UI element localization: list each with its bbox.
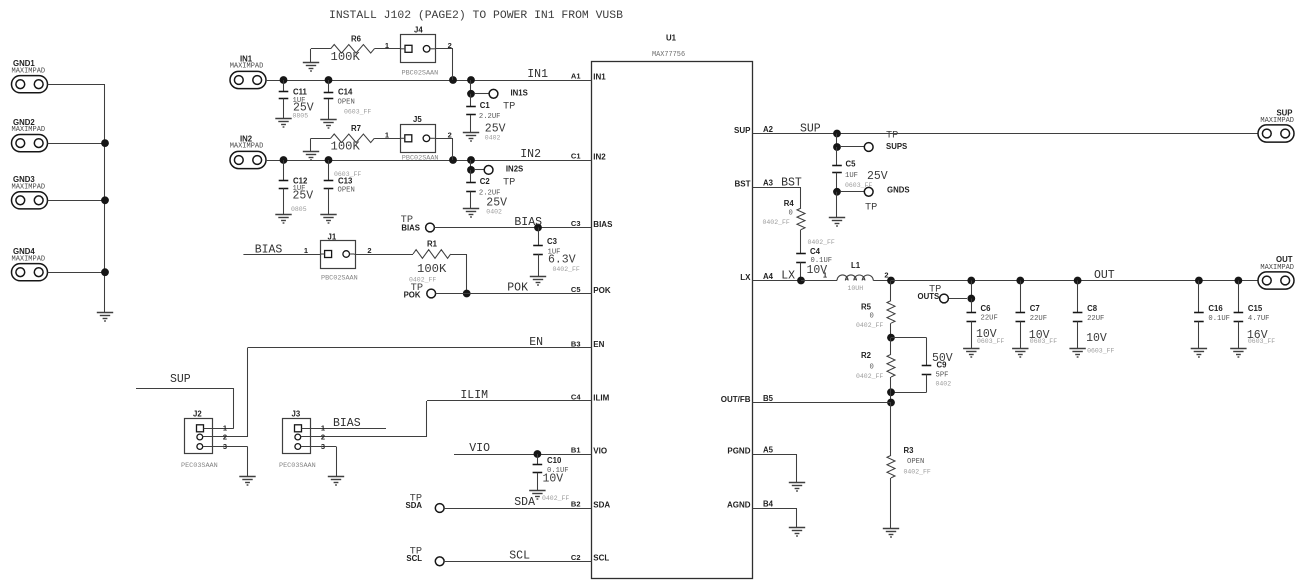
svg-text:C10: C10 [547,456,562,465]
svg-text:22UF: 22UF [1030,315,1047,323]
svg-text:C9: C9 [937,361,948,370]
svg-text:IN1: IN1 [527,68,548,81]
svg-text:B2: B2 [571,500,581,509]
svg-text:0402_FF: 0402_FF [904,469,931,476]
svg-text:25V: 25V [293,190,314,203]
svg-text:22UF: 22UF [1087,315,1104,323]
svg-text:1: 1 [823,271,827,280]
svg-text:C6: C6 [981,304,992,313]
svg-text:BST: BST [735,180,751,189]
svg-text:A3: A3 [763,179,774,188]
svg-text:1: 1 [304,246,308,255]
svg-text:0: 0 [870,313,874,321]
svg-text:GNDS: GNDS [887,186,910,195]
svg-text:LX: LX [740,273,751,282]
svg-text:IN1S: IN1S [511,89,528,98]
svg-text:MAXIMPAD: MAXIMPAD [12,67,46,75]
svg-text:POK: POK [404,290,421,299]
svg-text:R3: R3 [904,446,915,455]
svg-text:C3: C3 [571,219,581,228]
svg-text:SCL: SCL [406,554,422,563]
svg-text:OUTS: OUTS [918,292,940,301]
svg-text:10UH: 10UH [848,285,864,292]
svg-text:C5: C5 [571,285,581,294]
svg-text:MAXIMPAD: MAXIMPAD [1260,264,1294,272]
svg-text:POK: POK [593,286,611,295]
svg-text:SUP: SUP [800,122,821,135]
svg-text:0402_FF: 0402_FF [553,266,580,273]
svg-text:C4: C4 [810,247,821,256]
svg-text:C5: C5 [846,160,857,169]
svg-text:0402: 0402 [936,381,952,388]
svg-text:C14: C14 [338,88,353,97]
svg-text:TP: TP [865,202,877,214]
svg-text:U1: U1 [666,34,677,43]
svg-text:EN: EN [529,336,543,349]
svg-text:C16: C16 [1208,304,1223,313]
svg-text:MAX77756: MAX77756 [652,51,685,59]
svg-text:PEC03SAAN: PEC03SAAN [181,462,218,470]
svg-text:0402_FF: 0402_FF [763,219,790,226]
svg-text:0402_FF: 0402_FF [542,495,569,502]
svg-text:10V: 10V [543,473,564,486]
svg-text:A1: A1 [571,72,581,81]
svg-text:MAXIMPAD: MAXIMPAD [12,183,46,191]
svg-text:1: 1 [385,41,389,50]
svg-text:R6: R6 [351,35,362,44]
svg-text:A5: A5 [763,446,774,455]
svg-text:2: 2 [223,432,227,441]
svg-text:0603_FF: 0603_FF [344,109,371,116]
svg-text:C2: C2 [480,177,491,186]
svg-text:BIAS: BIAS [333,417,361,430]
svg-text:J2: J2 [193,410,202,419]
svg-text:4.7UF: 4.7UF [1248,315,1270,323]
svg-text:L1: L1 [851,261,861,270]
svg-text:0.1UF: 0.1UF [1208,315,1230,323]
svg-text:SDA: SDA [593,500,610,509]
svg-text:2: 2 [448,41,452,50]
svg-text:10V: 10V [1086,332,1107,345]
svg-text:R1: R1 [427,240,438,249]
svg-text:BIAS: BIAS [514,216,542,229]
svg-text:0402: 0402 [486,209,502,216]
svg-text:A4: A4 [763,272,774,281]
svg-text:1: 1 [223,424,227,433]
svg-text:1UF: 1UF [845,172,858,180]
svg-text:PEC03SAAN: PEC03SAAN [279,462,316,470]
svg-text:POK: POK [507,282,528,295]
svg-text:IN2: IN2 [593,152,606,161]
svg-text:LX: LX [781,269,795,282]
svg-text:3: 3 [223,442,227,451]
svg-text:2: 2 [367,246,371,255]
svg-text:R2: R2 [861,351,872,360]
svg-text:0603_FF: 0603_FF [1030,338,1057,345]
svg-text:R5: R5 [861,303,872,312]
svg-text:22UF: 22UF [981,315,998,323]
svg-text:0805: 0805 [291,206,307,213]
svg-text:C8: C8 [1087,304,1098,313]
svg-text:100K: 100K [331,139,361,153]
svg-text:SUPS: SUPS [886,142,907,151]
svg-text:B1: B1 [571,446,581,455]
svg-text:PGND: PGND [727,446,750,455]
svg-text:B4: B4 [763,500,774,509]
svg-text:MAXIMPAD: MAXIMPAD [12,126,46,134]
svg-text:ILIM: ILIM [593,393,609,402]
svg-text:3: 3 [321,442,325,451]
svg-text:OPEN: OPEN [338,187,355,195]
svg-text:1: 1 [321,424,325,433]
svg-text:C1: C1 [480,101,491,110]
svg-text:MAXIMPAD: MAXIMPAD [230,63,264,71]
svg-text:C2: C2 [571,553,581,562]
svg-text:TP: TP [886,129,898,141]
svg-text:2.2UF: 2.2UF [479,113,501,121]
svg-text:5PF: 5PF [936,372,949,380]
svg-text:AGND: AGND [727,500,751,509]
svg-text:SUP: SUP [734,126,751,135]
svg-text:TP: TP [503,100,515,112]
svg-text:J4: J4 [414,26,423,35]
svg-text:SCL: SCL [509,549,530,562]
svg-text:INSTALL J102 (PAGE2) TO POWER: INSTALL J102 (PAGE2) TO POWER IN1 FROM V… [329,10,623,22]
svg-text:0603_FF: 0603_FF [1248,338,1275,345]
svg-text:0603_FF: 0603_FF [977,338,1004,345]
svg-text:ILIM: ILIM [460,389,488,402]
svg-text:PBC02SAAN: PBC02SAAN [402,70,439,78]
svg-text:0603_FF: 0603_FF [1087,348,1114,355]
svg-text:SCL: SCL [593,554,609,563]
svg-text:0: 0 [870,364,874,372]
svg-text:TP: TP [503,177,515,189]
svg-text:OUT: OUT [1094,269,1115,282]
svg-text:100K: 100K [417,262,447,276]
svg-text:C1: C1 [571,152,581,161]
svg-text:MAXIMPAD: MAXIMPAD [1260,117,1294,125]
svg-text:SDA: SDA [406,501,423,510]
svg-text:A2: A2 [763,125,774,134]
svg-text:BST: BST [781,176,802,189]
svg-text:MAXIMPAD: MAXIMPAD [12,255,46,263]
svg-text:PBC02SAAN: PBC02SAAN [321,275,358,283]
svg-text:EN: EN [593,340,604,349]
svg-text:VIO: VIO [593,446,607,455]
svg-text:0: 0 [789,210,793,218]
svg-text:R4: R4 [784,199,795,208]
svg-text:J5: J5 [413,115,422,124]
svg-text:OUT/FB: OUT/FB [721,395,751,404]
svg-text:0402_FF: 0402_FF [808,239,835,246]
svg-text:0402_FF: 0402_FF [856,322,883,329]
svg-text:0402: 0402 [485,135,501,142]
svg-text:0805: 0805 [293,113,309,120]
svg-text:R7: R7 [351,124,361,133]
svg-text:BIAS: BIAS [401,224,420,233]
svg-text:MAXIMPAD: MAXIMPAD [230,143,264,151]
svg-text:BIAS: BIAS [593,220,613,229]
svg-text:100K: 100K [331,50,361,64]
svg-text:6.3V: 6.3V [548,254,576,267]
svg-text:2: 2 [884,271,888,280]
svg-text:0603_FF: 0603_FF [845,182,872,189]
svg-text:IN2S: IN2S [506,165,523,174]
svg-text:SUP: SUP [170,373,191,386]
svg-text:B5: B5 [763,394,774,403]
svg-text:OUT: OUT [1276,255,1293,264]
svg-text:J1: J1 [328,233,337,242]
svg-text:2: 2 [448,130,452,139]
svg-text:1: 1 [385,130,389,139]
svg-text:C13: C13 [338,177,353,186]
svg-text:J3: J3 [292,410,301,419]
svg-text:2: 2 [321,432,325,441]
svg-text:VIO: VIO [469,442,490,455]
svg-text:C15: C15 [1248,304,1263,313]
svg-text:C3: C3 [547,237,558,246]
svg-text:C7: C7 [1030,304,1040,313]
svg-text:IN2: IN2 [520,148,541,161]
svg-text:OPEN: OPEN [338,99,355,107]
svg-text:C11: C11 [293,88,308,97]
svg-text:0402_FF: 0402_FF [856,373,883,380]
svg-text:PBC02SAAN: PBC02SAAN [402,154,439,162]
svg-text:IN1: IN1 [593,72,606,81]
svg-text:OPEN: OPEN [907,458,924,466]
svg-text:SDA: SDA [514,496,535,509]
